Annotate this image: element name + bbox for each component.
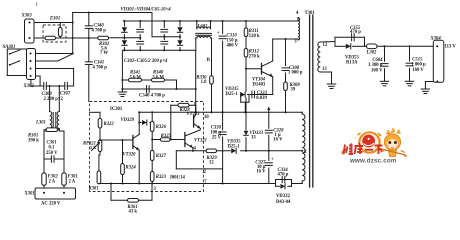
svg-text:2: 2	[304, 150, 307, 155]
svg-text:2 200 p×2: 2 200 p×2	[44, 97, 64, 102]
svg-text:R324: R324	[126, 166, 137, 171]
svg-text:R322: R322	[104, 122, 115, 127]
svg-text:IC301: IC301	[110, 107, 123, 112]
svg-text:R327: R327	[156, 154, 167, 159]
svg-text:VD332: VD332	[276, 194, 290, 199]
svg-text:400 V: 400 V	[227, 44, 239, 49]
svg-text:160 V: 160 V	[412, 68, 424, 73]
svg-text:C340 4 700 p: C340 4 700 p	[139, 93, 165, 98]
svg-text:D43-04: D43-04	[276, 200, 291, 205]
svg-text:120 k: 120 k	[249, 34, 260, 39]
svg-text:D25-1: D25-1	[228, 144, 241, 149]
svg-text:13: 13	[322, 67, 327, 72]
svg-text:113 V: 113 V	[445, 44, 457, 49]
svg-text:10: 10	[204, 115, 209, 120]
svg-text:VT320: VT320	[123, 152, 137, 157]
svg-text:0.1: 0.1	[49, 146, 56, 151]
svg-text:C307: C307	[60, 92, 71, 97]
svg-text:33: 33	[251, 136, 256, 141]
svg-text:1.8: 1.8	[201, 80, 208, 85]
svg-text:C302~C305/2 200 p×4: C302~C305/2 200 p×4	[124, 59, 168, 64]
svg-text:4 700 p: 4 700 p	[93, 65, 108, 70]
svg-text:270 k: 270 k	[249, 54, 260, 59]
svg-text:160 V: 160 V	[371, 68, 383, 73]
svg-text:D25-1: D25-1	[226, 92, 239, 97]
svg-text:4: 4	[296, 11, 299, 16]
svg-text:R326: R326	[156, 125, 167, 130]
svg-text:VD301~VD304/C65-10×4: VD301~VD304/C65-10×4	[121, 8, 172, 13]
svg-text:R381: R381	[89, 187, 99, 192]
svg-text:X301: X301	[24, 192, 35, 197]
svg-text:www.dzsc.com: www.dzsc.com	[349, 157, 397, 164]
svg-text:VD329: VD329	[121, 118, 135, 123]
svg-text:R13A: R13A	[346, 60, 358, 65]
svg-text:VT321: VT321	[194, 138, 207, 143]
svg-text:390 k: 390 k	[28, 139, 39, 144]
svg-text:470 p: 470 p	[350, 30, 361, 35]
svg-text:3 300 µ: 3 300 µ	[368, 63, 383, 68]
svg-text:X304: X304	[430, 36, 442, 41]
svg-text:7 W: 7 W	[100, 51, 108, 56]
svg-text:2 A: 2 A	[69, 180, 76, 185]
svg-text:J001/14: J001/14	[170, 175, 186, 180]
svg-text:2 A: 2 A	[49, 180, 56, 185]
svg-text:AC 220 V: AC 220 V	[41, 202, 61, 207]
svg-text:D1403: D1403	[253, 83, 266, 88]
svg-text:5.6 M: 5.6 M	[130, 75, 142, 80]
svg-text:1 000 µ: 1 000 µ	[411, 63, 426, 68]
svg-text:12: 12	[209, 161, 214, 166]
svg-text:E301: E301	[49, 16, 60, 21]
svg-text:2: 2	[204, 170, 207, 175]
svg-text:1 k: 1 k	[90, 146, 97, 151]
svg-text:B: B	[207, 58, 210, 63]
svg-text:+: +	[217, 31, 220, 36]
svg-text:L301: L301	[35, 121, 46, 126]
svg-text:3: 3	[294, 40, 297, 45]
svg-text:L302: L302	[366, 50, 378, 55]
svg-text:+: +	[271, 158, 274, 163]
svg-text:X303: X303	[21, 14, 33, 19]
svg-text:·: ·	[355, 136, 357, 142]
svg-text:R323: R323	[156, 175, 167, 180]
svg-text:16 V: 16 V	[273, 137, 283, 142]
svg-text:7: 7	[204, 180, 207, 185]
svg-text:0.039: 0.039	[256, 96, 267, 101]
svg-text:R325: R325	[161, 134, 172, 139]
svg-text:12: 12	[323, 43, 328, 48]
svg-text:39: 39	[291, 87, 296, 92]
svg-text:250 V: 250 V	[46, 151, 58, 156]
svg-text:5.6 M: 5.6 M	[153, 75, 165, 80]
svg-text:470 p: 470 p	[278, 173, 289, 178]
svg-text:1 000 p: 1 000 p	[288, 71, 303, 76]
svg-text:16 V: 16 V	[256, 170, 266, 175]
svg-text:VT323: VT323	[187, 112, 201, 117]
svg-text:25 V: 25 V	[212, 135, 222, 140]
svg-text:4 700 p: 4 700 p	[92, 28, 107, 33]
svg-text:43 k: 43 k	[129, 210, 138, 215]
